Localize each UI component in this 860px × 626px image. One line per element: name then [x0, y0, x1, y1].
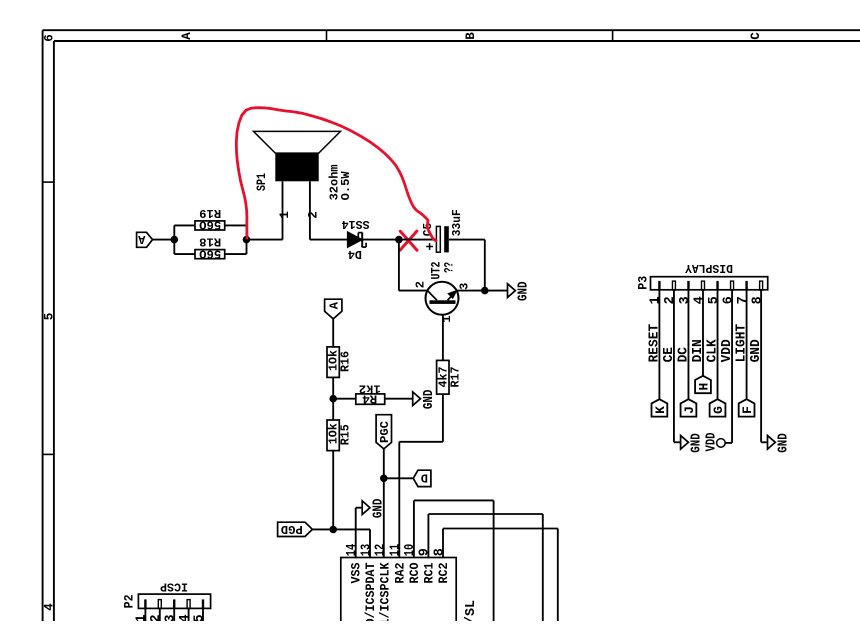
wire R16 to junction5	[332, 377, 334, 398]
svg-text:F: F	[740, 406, 755, 414]
svg-text:7: 7	[736, 296, 751, 304]
svg-text:4: 4	[692, 296, 707, 304]
svg-text:4: 4	[178, 614, 193, 621]
wire R17 to IC pin 11	[442, 394, 444, 442]
svg-text:9: 9	[418, 548, 433, 556]
svg-text:2: 2	[663, 296, 678, 304]
wire junction5 to R15	[332, 399, 334, 420]
net flag K	[652, 399, 668, 416]
svg-text:10: 10	[403, 544, 418, 556]
svg-text:GND: GND	[421, 390, 437, 410]
net flag A (top of R16)	[325, 299, 342, 319]
svg-text:3: 3	[458, 283, 472, 290]
svg-text:4: 4	[43, 603, 57, 611]
frame tick cols top	[326, 30, 328, 41]
wire P3 pin4 DIN	[702, 290, 704, 376]
connector P3 pin 2 pad	[672, 281, 675, 290]
svg-text:RA2: RA2	[392, 562, 407, 583]
svg-text:PGC: PGC	[378, 421, 392, 443]
svg-text:33uF: 33uF	[450, 209, 464, 236]
svg-text:GND: GND	[776, 433, 792, 453]
wire junction2 to speaker pin1	[247, 239, 283, 241]
wire P3 pin8 GND	[760, 290, 762, 443]
svg-text:13: 13	[359, 544, 374, 556]
resistor R18 560	[195, 250, 225, 259]
wire emitter to junction4	[457, 290, 485, 292]
ground GND (pin8)	[768, 435, 776, 449]
wire speaker pin2 to diode	[309, 181, 311, 239]
wire P3 pin7 LIGHT	[746, 290, 748, 399]
wire R4 to GND	[385, 398, 413, 400]
connector P2 ICSP	[138, 594, 210, 608]
ground GND (R4)	[413, 392, 421, 406]
wire capacitor to corner and down	[449, 239, 485, 241]
resistor R19 560	[195, 221, 225, 230]
transistor UT2 ?? (NPN)	[426, 282, 459, 315]
IC U1 PIC16F684	[341, 558, 456, 626]
resistor R15 10k	[327, 420, 339, 451]
svg-text:RCO: RCO	[407, 562, 422, 583]
junction node 2	[243, 236, 251, 244]
svg-text:D: D	[421, 471, 428, 485]
connector P3 DISPLAY	[651, 277, 768, 290]
ground GND (emitter)	[508, 284, 516, 298]
svg-text:P2: P2	[123, 594, 137, 608]
connector P2 pin 1	[144, 599, 146, 608]
svg-text:??: ??	[441, 262, 456, 273]
wire base down	[442, 315, 444, 361]
capacitor C5 33uF (polarized)	[436, 226, 440, 252]
wire IC pin 9 net	[427, 514, 429, 558]
svg-text:DISPLAY: DISPLAY	[684, 261, 733, 275]
svg-text:5: 5	[192, 614, 207, 621]
connector P3 pin 7 pad	[745, 281, 747, 290]
svg-text:R15: R15	[339, 424, 353, 445]
svg-text:PIC16F684-I/SL: PIC16F684-I/SL	[464, 600, 479, 621]
svg-text:8: 8	[432, 548, 447, 556]
svg-text:RA1/ICSPCLK: RA1/ICSPCLK	[377, 562, 392, 621]
svg-text:6: 6	[721, 296, 736, 304]
svg-text:G: G	[711, 406, 726, 414]
junction node left	[171, 236, 179, 244]
connector P3 pin 4 pad	[701, 281, 704, 290]
svg-text:1: 1	[278, 211, 292, 219]
svg-text:8: 8	[750, 296, 765, 304]
connector P2 pin 4	[187, 600, 190, 609]
wire junction3 down to collector	[398, 240, 400, 291]
net flag G	[710, 399, 726, 416]
svg-text:A: A	[180, 32, 194, 40]
speaker SP1 32ohm 0.5W	[275, 153, 318, 181]
svg-text:1: 1	[135, 614, 150, 621]
svg-text:D4: D4	[348, 247, 362, 261]
wire P3 pin1 RESET	[658, 290, 660, 399]
wire A flag to R16	[332, 319, 334, 347]
connector P3 pin 6 pad	[731, 281, 734, 290]
connector P2 pin 5	[202, 599, 204, 608]
svg-text:H: H	[696, 383, 711, 391]
svg-text:6: 6	[43, 34, 57, 42]
wire diode to junction3	[362, 239, 399, 241]
wire junction7 to D flag	[384, 477, 413, 479]
svg-text:12: 12	[374, 544, 389, 556]
net flag PGC	[376, 415, 391, 449]
net flag A (left)	[137, 232, 153, 247]
ground GND (CE)	[681, 435, 689, 449]
svg-text:R16: R16	[339, 351, 353, 372]
net flag PGD	[278, 522, 313, 536]
frame tick rows left	[43, 181, 54, 183]
junction node 4	[481, 287, 489, 295]
red freehand annotation wire	[236, 108, 436, 241]
svg-text:RC2: RC2	[436, 562, 451, 583]
net flag H	[695, 376, 711, 393]
svg-text:3: 3	[678, 296, 693, 304]
wire down-left branch	[173, 240, 175, 255]
wire junction4 to GND	[485, 290, 508, 292]
svg-text:VDD: VDD	[703, 433, 719, 452]
wire junction6 to IC pin 13	[333, 528, 370, 530]
red X annotation	[400, 231, 417, 250]
svg-text:PGD: PGD	[281, 522, 303, 536]
resistor R16 10k	[327, 347, 339, 378]
svg-text:O.5W: O.5W	[339, 171, 353, 201]
svg-text:P3: P3	[637, 276, 651, 290]
wire A flag to junction	[153, 239, 175, 241]
net flag F	[739, 399, 755, 416]
svg-text:2: 2	[149, 614, 164, 621]
wire P3 pin3 DC	[687, 290, 689, 399]
svg-text:A: A	[137, 232, 145, 246]
svg-text:R17: R17	[448, 367, 462, 388]
svg-text:5: 5	[43, 313, 57, 321]
svg-text:2: 2	[307, 211, 321, 219]
svg-text:A: A	[327, 301, 341, 309]
wire PGD to junction6	[312, 528, 333, 530]
svg-text:RAO/ICSPDAT: RAO/ICSPDAT	[363, 562, 378, 621]
junction node 7	[380, 475, 388, 483]
wire P3 pin5 CLK	[717, 290, 719, 399]
svg-text:56O: 56O	[199, 218, 221, 232]
svg-text:11: 11	[389, 544, 404, 556]
wire PGC to junction7	[383, 449, 385, 479]
net flag J	[681, 399, 697, 416]
svg-text:5: 5	[707, 296, 722, 304]
svg-text:R4: R4	[362, 392, 377, 406]
svg-text:VSS: VSS	[349, 562, 364, 583]
resistor R4 1k2	[356, 394, 385, 404]
wire junction7 to IC pin 12	[383, 478, 385, 557]
svg-text:GND: GND	[689, 433, 705, 453]
junction node 5	[329, 395, 337, 403]
connector P3 pin 1 pad	[658, 281, 660, 290]
connector P2 pin 3	[173, 599, 175, 608]
wire R18 to junction2	[225, 253, 247, 255]
wire P3 pin6 VDD supply	[731, 290, 733, 443]
connector P2 pin 2	[158, 600, 161, 609]
svg-text:C: C	[749, 32, 763, 40]
connector P3 pin 5 pad	[716, 281, 718, 290]
svg-text:1: 1	[649, 296, 664, 304]
frame inner border	[54, 40, 860, 42]
svg-text:56O: 56O	[199, 246, 221, 260]
svg-text:ICSP: ICSP	[160, 579, 188, 593]
wire IC pin 10 net	[413, 500, 415, 557]
net flag D	[413, 470, 431, 486]
frame outer border	[43, 29, 860, 31]
wire IC pin14 to GND	[355, 508, 357, 558]
wire R19 to junction2	[225, 224, 247, 226]
svg-text:J: J	[682, 406, 697, 414]
wire junction5 to R4	[333, 398, 356, 400]
wire up-left branch	[173, 225, 175, 239]
wire R15 down to junction6	[332, 451, 334, 530]
svg-text:3: 3	[164, 614, 179, 621]
resistor R17 4k7	[437, 360, 449, 394]
svg-text:SS14: SS14	[342, 217, 370, 231]
svg-text:SP1: SP1	[255, 173, 269, 191]
svg-text:2: 2	[414, 281, 428, 288]
connector P3 pin 8 pad	[760, 281, 763, 290]
junction node 3	[395, 236, 403, 244]
wire junction3 to capacitor	[399, 239, 437, 241]
diode D4 SS14	[348, 232, 362, 247]
supply VDD circle	[717, 439, 726, 448]
wire IC pin 8 net	[442, 529, 444, 558]
svg-text:B: B	[464, 32, 478, 40]
svg-text:GND: GND	[516, 282, 532, 302]
svg-text:14: 14	[345, 544, 360, 556]
svg-text:K: K	[653, 406, 668, 414]
connector P3 pin 3 pad	[687, 281, 689, 290]
svg-text:RC1: RC1	[421, 562, 436, 583]
junction node 6	[329, 526, 337, 534]
ground GND (VSS)	[362, 501, 370, 515]
svg-text:GND: GND	[370, 499, 386, 519]
wire P3 pin2 CE to gnd	[673, 290, 675, 443]
